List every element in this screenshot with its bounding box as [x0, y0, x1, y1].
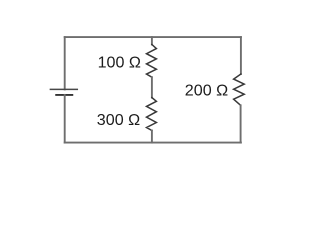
wire: right branch top lead — [240, 37, 242, 74]
resistor 300 ohm zigzag — [147, 98, 157, 131]
resistor 200 ohm zigzag — [234, 74, 245, 105]
battery B1 long plate (positive) — [50, 88, 77, 90]
wire: left vertical lower (battery bottom lead) — [64, 95, 66, 143]
wire: left vertical upper (battery top lead) — [64, 37, 66, 89]
wire: middle branch top lead — [151, 37, 153, 44]
wire: middle branch bottom lead — [151, 131, 153, 143]
resistor 100 ohm zigzag — [147, 45, 157, 78]
svg-text:100 Ω: 100 Ω — [98, 54, 141, 72]
svg-text:200 Ω: 200 Ω — [185, 82, 228, 100]
wire: middle branch middle lead — [151, 77, 153, 97]
battery B1 short plate (negative) — [56, 94, 72, 96]
svg-text:300 Ω: 300 Ω — [97, 111, 140, 129]
wire: bottom horizontal — [65, 142, 241, 144]
wire: right branch bottom lead — [240, 105, 242, 142]
wire: top horizontal — [65, 36, 241, 38]
